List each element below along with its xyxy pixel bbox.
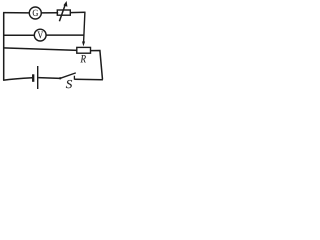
wire top rail left segment [3, 12, 29, 14]
galvanometer G circle [29, 7, 41, 19]
slider arrowhead into R [82, 42, 85, 47]
wire bottom right segment [74, 78, 103, 81]
wire top rail right segment [70, 11, 85, 13]
rheostat arrow [59, 1, 67, 21]
battery long plate [37, 66, 39, 89]
voltmeter V circle [34, 29, 46, 41]
wire R right terminal to lower right vertical [91, 51, 103, 80]
label S [66, 80, 72, 88]
switch S pivot [59, 77, 61, 79]
label R [80, 55, 86, 62]
label G [33, 10, 38, 16]
wire V row left segment [3, 34, 34, 36]
wire mid row to R left terminal [3, 48, 78, 51]
wire battery to switch pivot [38, 77, 60, 80]
label V [37, 31, 43, 38]
wire bottom left segment [3, 78, 32, 81]
resistor R box [77, 47, 91, 53]
wire V row right segment to junction [46, 34, 84, 36]
wire right upper vertical [84, 12, 85, 42]
switch S lever [60, 73, 76, 78]
switch S contact tick [73, 76, 75, 80]
rheostat box [57, 10, 70, 15]
wire left vertical [3, 13, 5, 81]
battery short plate [32, 74, 34, 82]
wire top rail middle segment [41, 12, 58, 14]
